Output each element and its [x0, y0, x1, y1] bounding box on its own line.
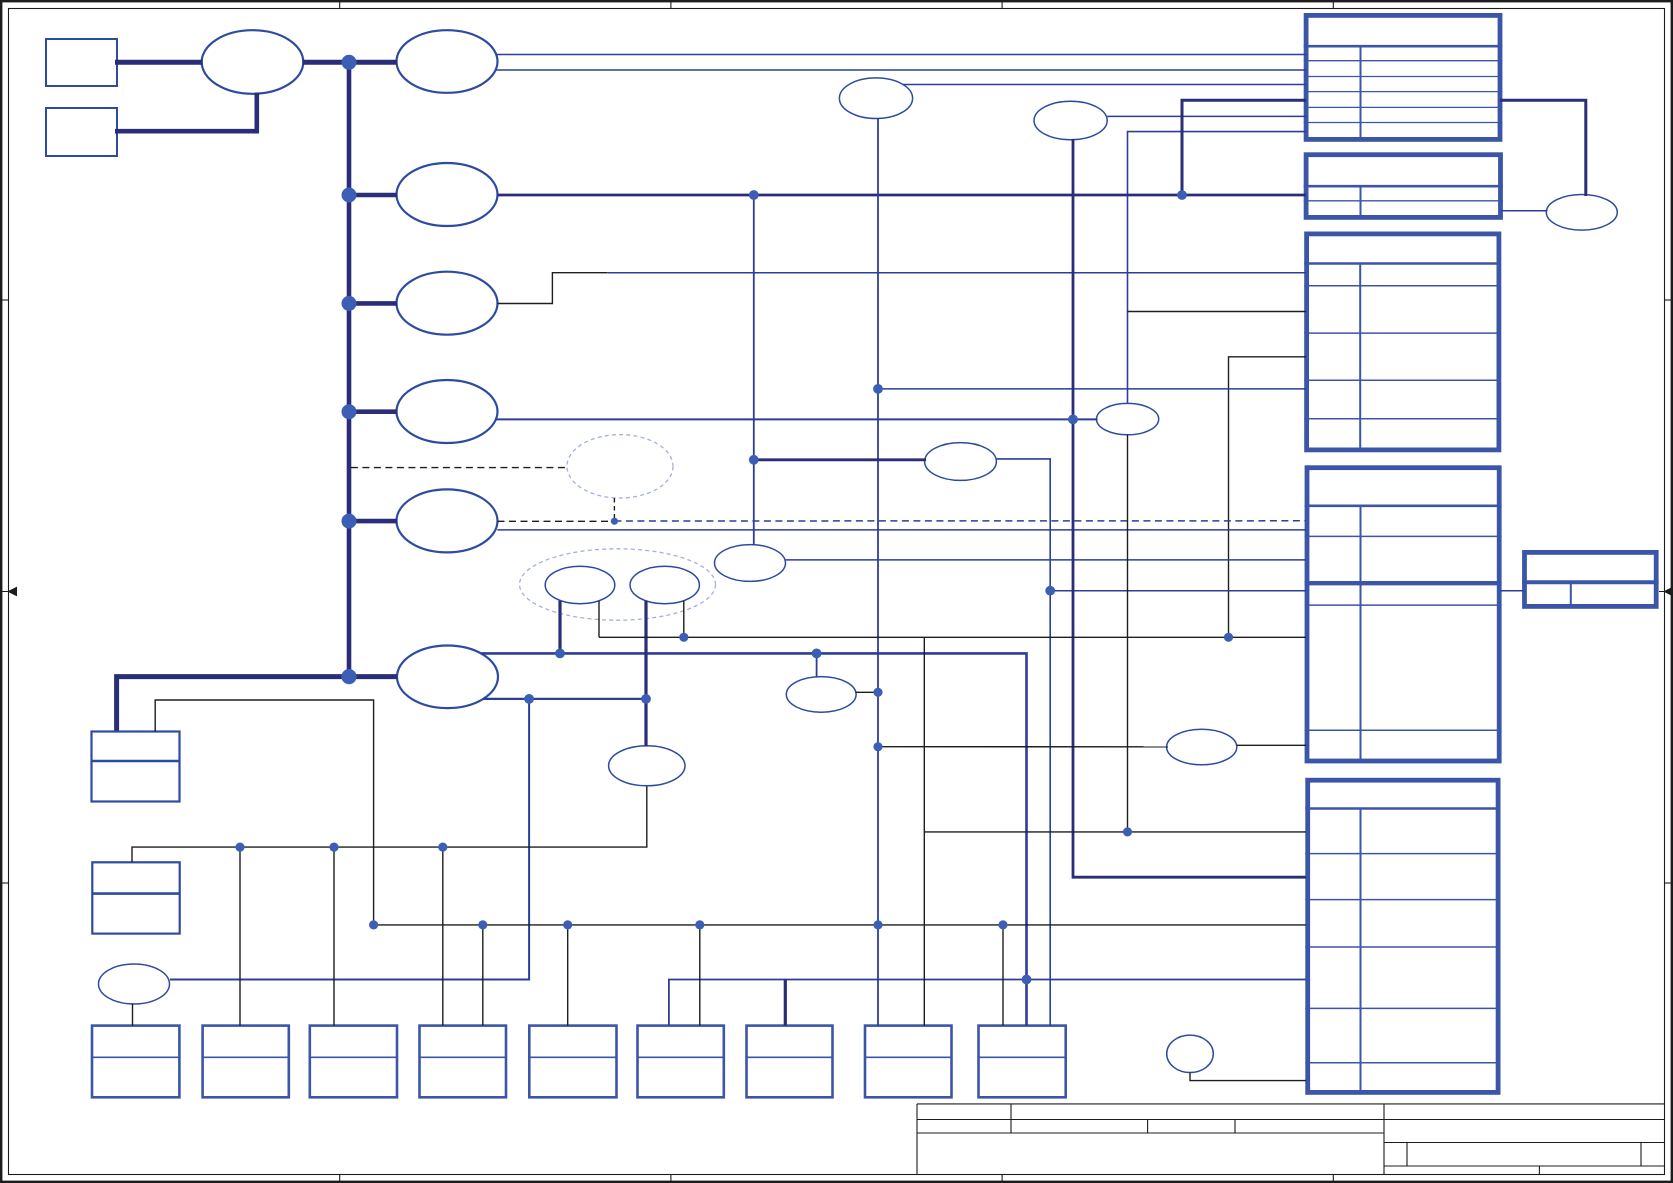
wire C2 output 1 to table A — [496, 54, 1306, 56]
title block divider v7 — [1640, 1143, 1642, 1167]
junction dot n3 — [873, 384, 883, 394]
connector ellipse C9 — [1034, 101, 1107, 140]
ground module box 7 — [747, 1026, 833, 1098]
ground module box 5 — [529, 1026, 616, 1098]
connector ellipse C7 — [397, 646, 498, 709]
junction dot n14 — [641, 694, 651, 704]
junction dot n16 — [235, 843, 244, 852]
ground module box 2 divider — [203, 1056, 289, 1058]
junction dot n23 — [873, 920, 882, 929]
title block row line 5 — [1384, 1165, 1665, 1167]
connector ellipse C20 (in dashed group) — [630, 566, 699, 604]
black drop to ground box 4 — [442, 847, 444, 1026]
fuse box A frame — [92, 732, 180, 802]
black wire to table D row 4 — [599, 636, 1306, 638]
junction dot J6 — [341, 669, 356, 684]
thick stub C20 drop to C15 — [644, 601, 647, 747]
connector ellipse C5 — [397, 380, 498, 443]
ground module box 1 — [92, 1026, 179, 1098]
connector table D row line 1 — [1305, 535, 1502, 537]
connector ellipse C10 — [1546, 195, 1617, 231]
junction dot n4 — [1068, 415, 1078, 425]
black drop to ground box 2 — [239, 847, 241, 1026]
junction dot n22 — [695, 920, 704, 929]
title block divider v6 — [1406, 1143, 1408, 1167]
wire C13 to table D row 2 — [786, 559, 1307, 561]
connector table B frame — [1306, 155, 1500, 218]
title block row line 3 — [917, 1132, 1384, 1134]
connector circle C18 — [1167, 1035, 1214, 1072]
connector ellipse C19 (in dashed group) — [545, 566, 615, 604]
zone tick bottom 4 — [1332, 1174, 1334, 1183]
junction dot n27 — [873, 742, 882, 751]
junction dot J4 — [342, 404, 357, 419]
stub junction to C14 — [816, 653, 818, 677]
black stub C19 lower right — [598, 601, 600, 638]
connector table C row line 1 — [1304, 285, 1501, 287]
ground module box 3 — [310, 1026, 397, 1098]
main feeder C3 to table B — [498, 194, 1307, 197]
zone tick bottom 1 — [339, 1174, 341, 1183]
black drop to ground box 6 — [699, 925, 701, 1026]
junction dot n18 — [438, 843, 447, 852]
wire table B to C10 — [1501, 210, 1548, 212]
connector table D header line — [1305, 504, 1502, 507]
wire C6 solid output to table D — [497, 529, 1306, 531]
junction dot n11 — [555, 649, 565, 659]
black wire node to C16 — [878, 746, 1168, 748]
junction dot J1 — [342, 55, 357, 70]
connector table C row line 2 — [1304, 332, 1501, 334]
connector table B pin column divider — [1360, 186, 1362, 215]
title block divider v5 — [1383, 1104, 1385, 1175]
ground module box 8 — [865, 1026, 952, 1098]
junction dot n2 — [1177, 190, 1187, 200]
connector table A row line 5 — [1304, 122, 1503, 124]
junction dot n12 — [812, 649, 822, 659]
component box P2 (left) — [46, 108, 117, 156]
black wire riser to table C row 3 — [1229, 357, 1307, 638]
bus stub to C4 — [349, 301, 397, 306]
ground module box 1 divider — [92, 1056, 179, 1058]
ground module box 6 divider — [638, 1056, 724, 1058]
wire C8 drop to ground box 8 — [877, 118, 879, 1026]
connector ellipse C11 — [925, 443, 997, 481]
wire branch to table D row 3 — [1050, 590, 1306, 592]
fuse box B frame — [92, 862, 179, 933]
connector table C pin column divider — [1359, 264, 1361, 448]
black ground bus 2 to table F — [374, 924, 1306, 926]
battery bus wire P1 to C1 — [115, 60, 203, 65]
wire C7 upper output — [481, 653, 1027, 1025]
ground module box 4 divider — [420, 1056, 507, 1058]
connector ellipse C8 — [839, 78, 912, 119]
junction dot n5 — [749, 455, 759, 465]
wire riser to table A row 6 — [1128, 132, 1307, 404]
title block top edge — [917, 1103, 1665, 1105]
connector table E frame — [1525, 552, 1657, 606]
connector table F row line 5 — [1305, 1062, 1500, 1064]
connector ellipse C6 — [397, 489, 498, 552]
connector table B header line — [1304, 185, 1503, 188]
black drop to ground box 3 — [333, 847, 335, 1026]
ground module box 7 divider — [747, 1056, 833, 1058]
connector table F row line 3 — [1305, 946, 1500, 948]
black wire C14 to node on C8 drop — [856, 691, 879, 693]
wire table D to table E — [1500, 590, 1524, 592]
connector table E header line — [1522, 580, 1659, 584]
optional group dashed ellipse 2 — [520, 549, 716, 620]
connector table C header line — [1304, 262, 1501, 265]
junction dot n6 (small) — [611, 518, 618, 525]
title block divider v2 — [1010, 1104, 1012, 1133]
connector table D pin column divider — [1360, 506, 1362, 759]
centering arrow right — [1659, 588, 1673, 596]
thick wire table A to C10 — [1500, 100, 1586, 196]
title block divider v4 — [1234, 1120, 1236, 1134]
title block divider v8 — [1538, 1166, 1540, 1175]
ground module box 9 — [979, 1026, 1066, 1098]
zone tick left 1 — [0, 299, 9, 301]
connector table A pin column divider — [1360, 46, 1362, 137]
connector ellipse C1 — [202, 30, 304, 94]
junction dot n8 — [598, 636, 600, 638]
title block row line 4 — [1384, 1142, 1665, 1144]
title block outline left edge — [916, 1104, 918, 1175]
title block row line 2 — [917, 1119, 1665, 1121]
junction dot n13 — [524, 694, 534, 704]
junction dot n20 — [478, 920, 487, 929]
black wire C18 to table F row 6 — [1190, 1073, 1306, 1081]
black drop to ground box 5 — [567, 925, 569, 1026]
connector table A header line — [1304, 45, 1503, 48]
connector ellipse C17 — [99, 964, 170, 1004]
component box P1 (top left) — [46, 39, 117, 86]
connector table E pin column divider — [1570, 582, 1572, 604]
black drop C12 to table F row 1 — [1127, 435, 1129, 832]
title block divider v3 — [1147, 1120, 1149, 1134]
connector table C row line 3 — [1304, 379, 1501, 381]
junction dot n9 — [679, 633, 688, 642]
zone tick top 3 — [1001, 0, 1003, 9]
ground rail wire to table F — [669, 980, 1306, 1026]
black wire to table F row 1 — [924, 831, 1306, 833]
main vertical bus — [347, 62, 352, 676]
dashed wire C6 output black part — [498, 520, 615, 522]
junction dot n24 — [998, 920, 1007, 929]
thick drop C9 to table F — [1073, 139, 1306, 877]
zone tick top 4 — [1332, 0, 1334, 9]
thick wire junction to C11 — [754, 458, 926, 461]
zone tick top 1 — [339, 0, 341, 9]
junction dot n17 — [329, 843, 338, 852]
ground module box 6 — [638, 1026, 724, 1098]
wire to table C row 1 — [607, 272, 1306, 274]
wire C4 black elbow — [498, 273, 608, 304]
junction dot J5 — [342, 514, 357, 529]
black wire riser to table C row 2 — [1128, 311, 1307, 313]
thick stub ground rail to box 7 — [784, 980, 787, 1026]
connector table A row line 3 — [1304, 91, 1503, 93]
connector table D thick section line — [1305, 581, 1502, 585]
black wire C16 to table D row 5 — [1237, 744, 1306, 746]
ground module box 3 divider — [310, 1056, 397, 1058]
battery bus wire C1 to C2 through junction — [303, 60, 398, 65]
connector ellipse C3 — [397, 163, 498, 226]
fuse box B divider — [92, 892, 179, 895]
connector ellipse C2 — [397, 30, 498, 93]
connector ellipse C14 — [786, 677, 856, 713]
wire C5 to C12 — [495, 418, 1098, 420]
connector table F row line 2 — [1305, 899, 1500, 901]
ground module box 8 divider — [865, 1056, 952, 1058]
connector table A frame — [1306, 15, 1500, 139]
black wire box A riser — [155, 700, 373, 925]
bus stub to C3 — [349, 193, 397, 198]
connector ellipse C16 — [1167, 729, 1237, 765]
zone tick bottom 3 — [1001, 1174, 1003, 1183]
ground module box 9 divider — [979, 1056, 1066, 1058]
junction dot J2 — [342, 188, 357, 203]
wire P2 to C1 bottom elbow — [115, 93, 257, 132]
ground module box 2 — [203, 1026, 289, 1098]
junction dot n10 — [1224, 633, 1233, 642]
connector ellipse C13 — [715, 545, 786, 582]
connector table A row line 4 — [1304, 106, 1503, 108]
connector ellipse C4 — [397, 272, 498, 335]
junction dot n19 — [369, 920, 378, 929]
zone tick right 2 — [1664, 882, 1673, 884]
wire C9 to table A — [1107, 115, 1306, 117]
connector table D row line 2 — [1305, 604, 1502, 606]
connector table C frame — [1307, 234, 1499, 450]
connector table D frame — [1307, 468, 1499, 761]
black drop to ground box 9 — [1002, 925, 1004, 1026]
black stub C20 lower right — [683, 601, 685, 638]
fuse box A divider — [92, 760, 180, 763]
dashed wire blue part to table D — [614, 520, 1306, 522]
black stub C17 to ground box 1 — [132, 1004, 134, 1026]
centering arrow left — [0, 588, 17, 596]
black drop to ground box 4b — [482, 925, 484, 1026]
connector table A row line 1 — [1304, 60, 1503, 62]
zone tick top 2 — [670, 0, 672, 9]
connector table D row line 3 — [1305, 729, 1502, 731]
black ground bus 1 — [132, 787, 647, 863]
thick stub dashed-group ellipse C19 drop — [558, 601, 561, 654]
connector table F row line 4 — [1305, 1007, 1500, 1009]
zone tick bottom 2 — [670, 1174, 672, 1183]
thick feed riser into table A row 4 — [1182, 100, 1306, 195]
connector table F header line — [1305, 807, 1500, 810]
bus stub to C5 — [349, 409, 397, 414]
junction dot J3 — [342, 296, 357, 311]
wire branch to table C row 4 — [878, 388, 1306, 390]
connector table B row line — [1304, 200, 1503, 202]
connector ellipse C15 — [609, 746, 685, 786]
connector table C row line 4 — [1304, 418, 1501, 420]
junction dot n21 — [563, 920, 572, 929]
connector ellipse C12 — [1097, 403, 1159, 434]
wire drop to C17 feed — [170, 699, 529, 980]
junction dot n26 — [873, 688, 882, 697]
wire C8 to table A — [903, 84, 1306, 86]
ground module box 5 divider — [529, 1056, 616, 1058]
junction dot n15 — [1123, 827, 1132, 836]
junction dot n7 — [1045, 586, 1055, 596]
connector table A row line 2 — [1304, 76, 1503, 78]
connector table F row line 1 — [1305, 853, 1500, 855]
bus stub to C6 — [349, 519, 397, 524]
zone tick left 2 — [0, 882, 9, 884]
connector table F pin column divider — [1360, 809, 1362, 1091]
wire C7 lower output — [483, 698, 646, 700]
zone tick right 1 — [1664, 299, 1673, 301]
wire C11 elbow down — [996, 459, 1050, 1026]
black riser table D row 4 to ground box 8 — [923, 637, 925, 1025]
bus elbow to fuse box A — [117, 677, 398, 731]
dashed stub optional ellipse to node — [613, 498, 615, 521]
wire drop C3 bus to C13 — [753, 195, 755, 545]
ground module box 4 — [420, 1026, 507, 1098]
wire C2 output 2 to table A — [496, 69, 1306, 71]
optional group dashed ellipse 1 — [567, 435, 673, 498]
connector table F frame — [1308, 780, 1498, 1092]
dashed wire bus to optional ellipse — [351, 467, 567, 469]
junction dot n25 — [1022, 975, 1032, 985]
junction dot n1 — [749, 190, 759, 200]
